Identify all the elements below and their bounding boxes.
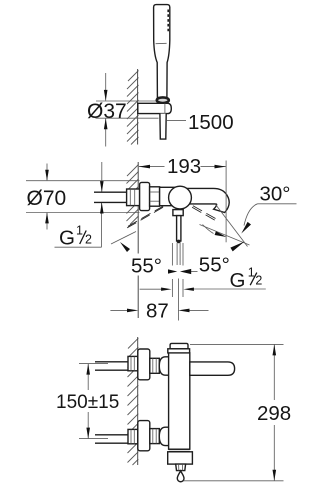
svg-text:G: G bbox=[230, 269, 246, 292]
svg-text:150±15: 150±15 bbox=[56, 392, 119, 413]
svg-text:1500: 1500 bbox=[188, 111, 234, 134]
svg-text:G: G bbox=[59, 227, 75, 250]
svg-text:298: 298 bbox=[257, 402, 291, 425]
svg-text:55°: 55° bbox=[131, 255, 162, 278]
svg-text:55°: 55° bbox=[199, 254, 230, 277]
svg-text:87: 87 bbox=[146, 300, 169, 323]
svg-text:30°: 30° bbox=[260, 183, 291, 206]
svg-text:193: 193 bbox=[167, 155, 201, 178]
svg-text:2: 2 bbox=[255, 274, 262, 288]
svg-text:2: 2 bbox=[85, 233, 92, 247]
svg-text:Ø37: Ø37 bbox=[87, 100, 127, 123]
svg-text:1: 1 bbox=[76, 224, 83, 238]
svg-text:Ø70: Ø70 bbox=[27, 187, 67, 210]
